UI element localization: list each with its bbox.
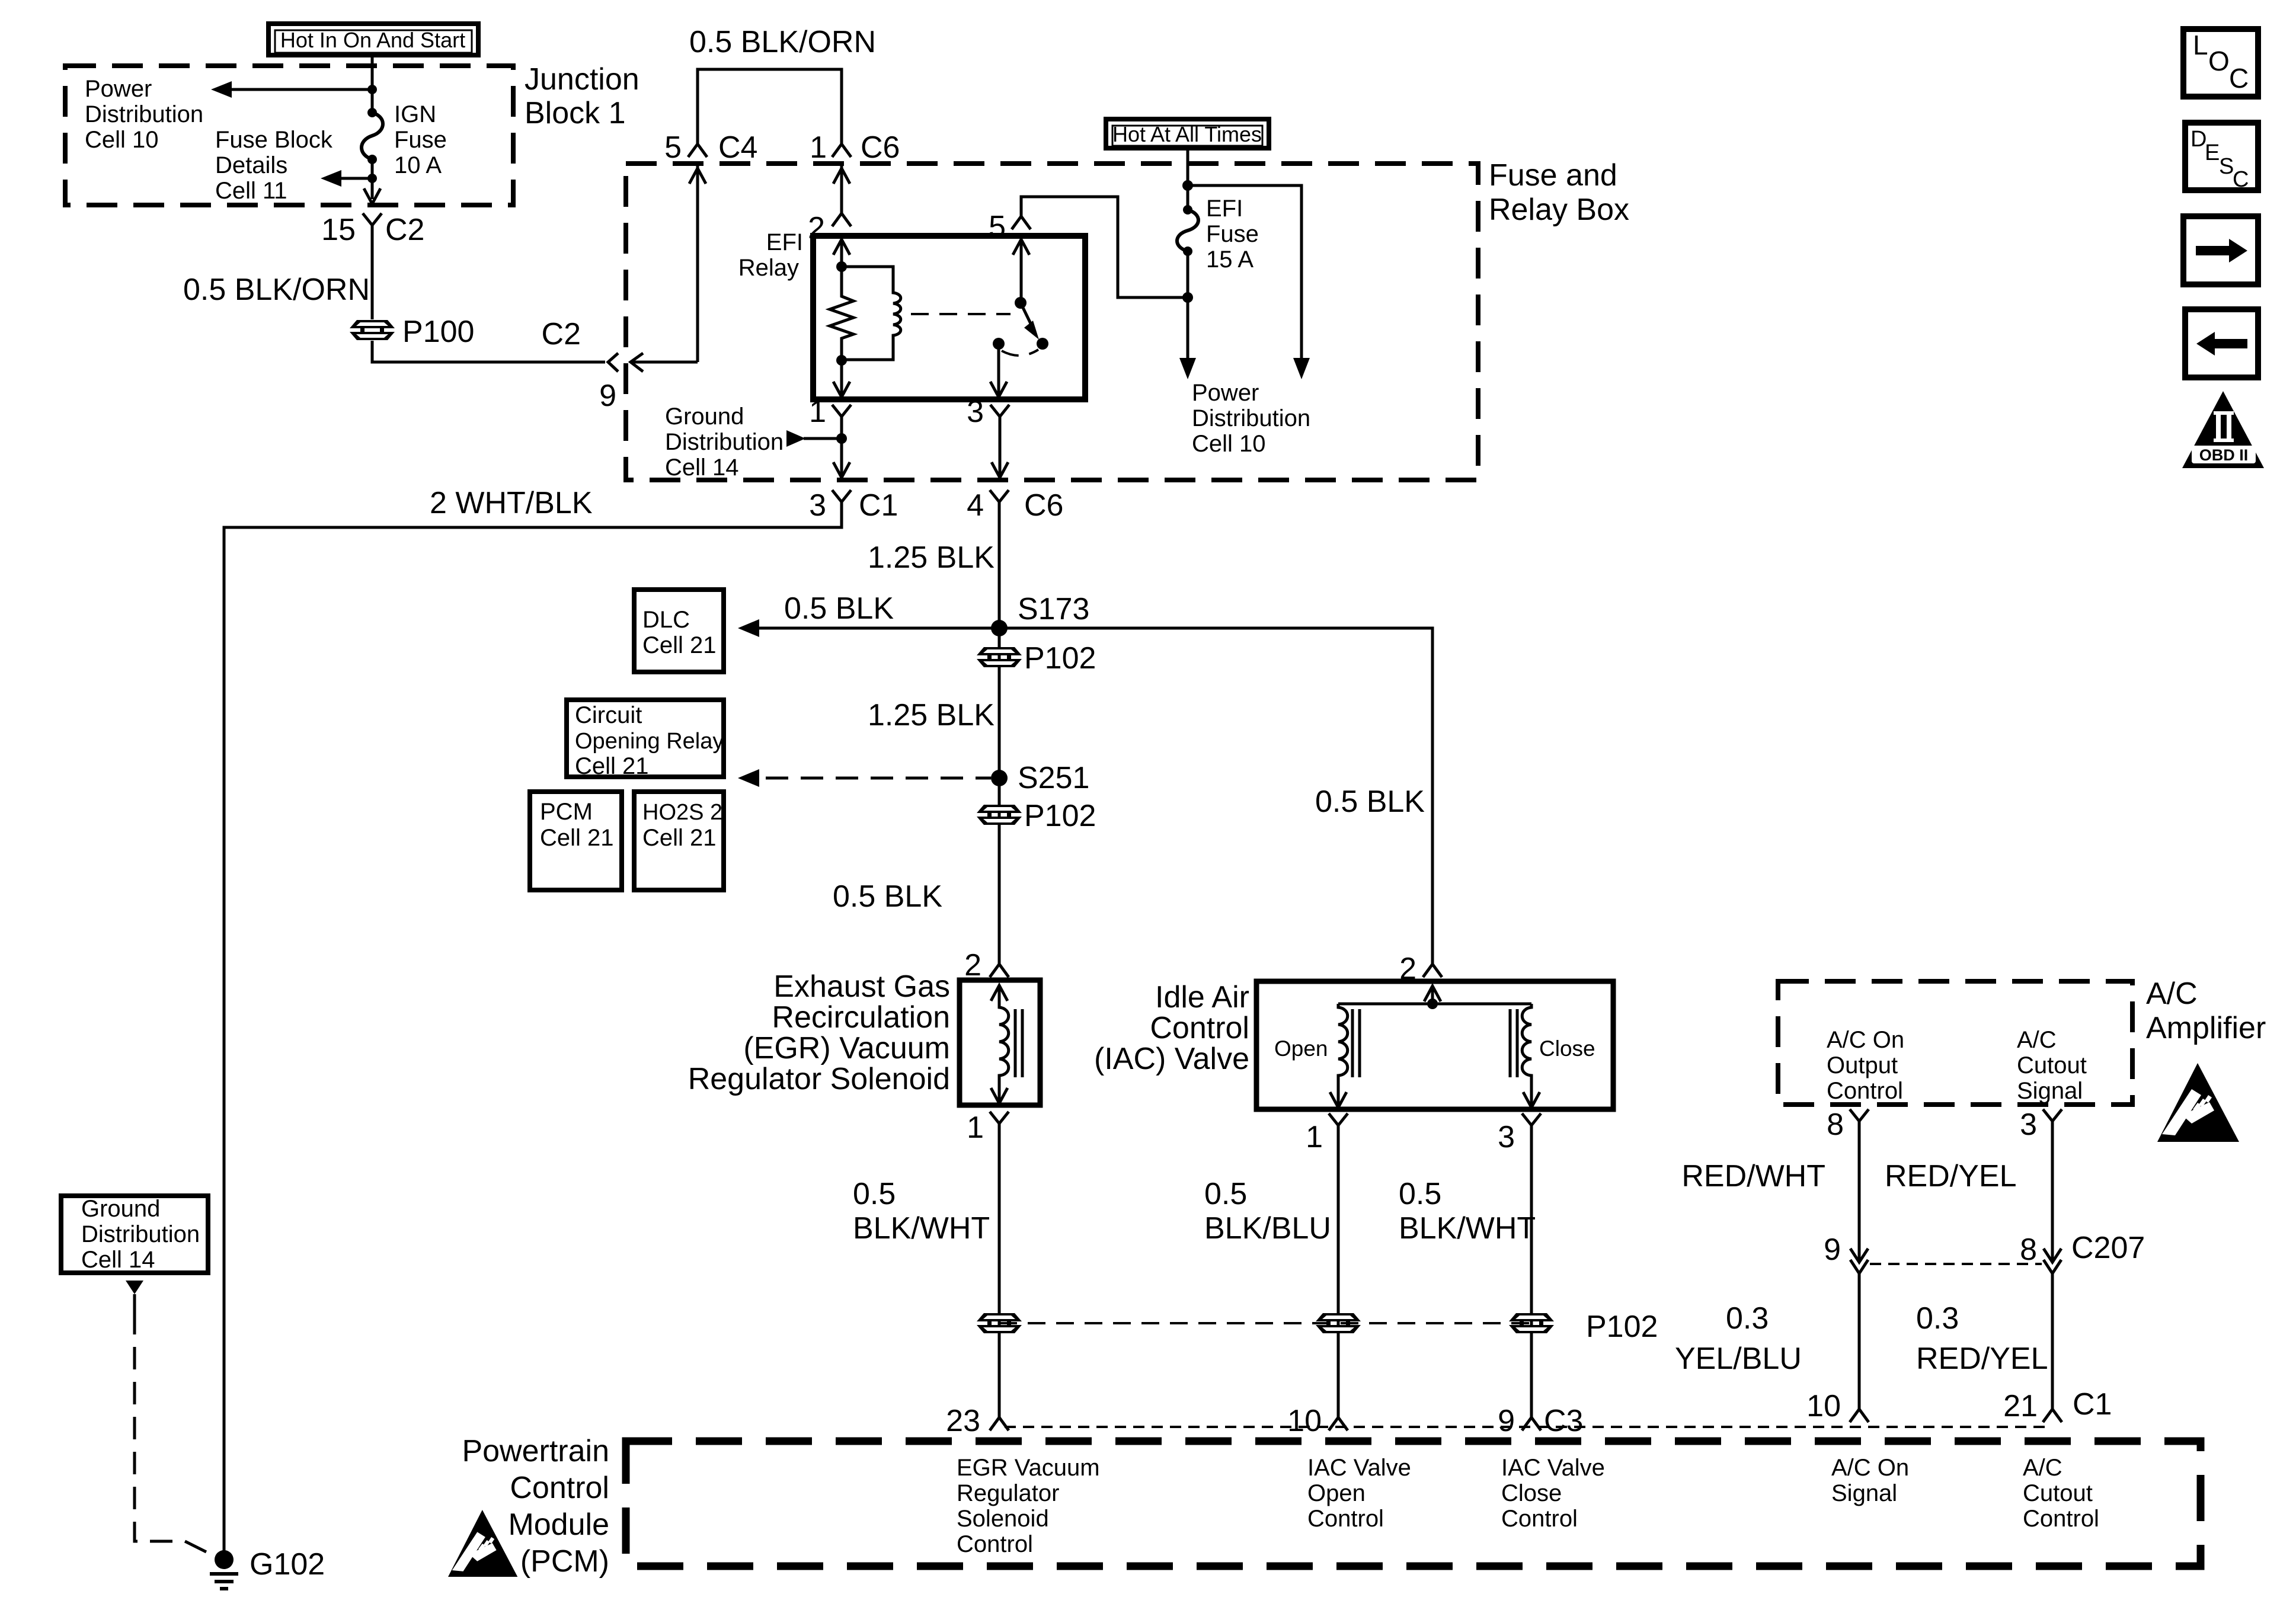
wire: right branch over and down <box>1188 185 1302 359</box>
svg-text:Recirculation: Recirculation <box>772 1000 950 1035</box>
connector: A/C pin 3 female <box>2043 1109 2062 1135</box>
wire: relay switch common to pin 5 <box>1020 239 1023 299</box>
svg-text:Fuse and: Fuse and <box>1489 158 1617 193</box>
fuse F-EFI: EFI Fuse 15 A symbol <box>1177 205 1198 256</box>
label: Exhaust Gas Recirculation (EGR) Vacuum Regulator Solenoid <box>688 969 950 1096</box>
svg-text:Control: Control <box>2023 1506 2099 1532</box>
connector: IAC pin 1 female <box>1329 1113 1348 1139</box>
svg-text:Distribution: Distribution <box>1192 405 1310 431</box>
wire: S173 down <box>998 628 1001 964</box>
wire label: 0.5 BLK/BLU <box>1204 1177 1331 1246</box>
svg-text:L: L <box>2193 30 2208 60</box>
svg-text:Solenoid: Solenoid <box>957 1506 1049 1532</box>
svg-text:Control: Control <box>1501 1506 1578 1532</box>
icon: LOC box <box>2183 29 2258 97</box>
wire: IAC pin3 down to PCM <box>1530 1139 1533 1417</box>
connector: PCM pin 21 male <box>2043 1409 2062 1422</box>
svg-text:Cell 14: Cell 14 <box>81 1247 155 1273</box>
svg-text:C: C <box>2229 63 2249 94</box>
svg-text:15 A: 15 A <box>1206 247 1253 273</box>
wire: 2 WHT/BLK from C1 left and down to G102 <box>224 501 842 1551</box>
label: Fuse and Relay Box <box>1489 158 1629 227</box>
connector P102: grommet IAC open wire <box>1316 1313 1361 1333</box>
arrow: up V below dashed edge at C4 <box>689 168 706 184</box>
svg-text:Cell 21: Cell 21 <box>575 753 649 779</box>
node: relay coil bottom junction <box>836 355 847 366</box>
wire: A/C pin 3 down to C207 <box>2051 1135 2054 1262</box>
svg-text:3: 3 <box>2020 1108 2037 1142</box>
wire: A/C pin 8 down to C207 <box>1858 1135 1861 1262</box>
svg-text:P102: P102 <box>1024 641 1096 676</box>
connector P102: grommet IAC close wire <box>1509 1313 1554 1333</box>
svg-text:10: 10 <box>1287 1404 1322 1438</box>
resistor: relay coil resistance zigzag <box>830 267 853 360</box>
svg-text:Cutout: Cutout <box>2017 1052 2087 1078</box>
label: A/C On Output Control <box>1827 1027 1904 1104</box>
svg-text:9: 9 <box>1498 1404 1515 1438</box>
arrow: up V inside EGR box <box>991 985 1008 1001</box>
label: A/C Cutout Control <box>2023 1455 2099 1532</box>
svg-text:P102: P102 <box>1586 1310 1658 1344</box>
svg-text:C1: C1 <box>859 488 898 523</box>
svg-text:C1: C1 <box>2073 1387 2112 1422</box>
svg-text:Cell 11: Cell 11 <box>215 178 287 204</box>
arrow: down V IAC open <box>1330 1092 1347 1108</box>
svg-text:(IAC) Valve: (IAC) Valve <box>1094 1042 1249 1076</box>
connector P102: grommet EGR wire <box>977 1313 1022 1333</box>
connector: A/C pin 8 female <box>1850 1109 1869 1135</box>
svg-text:Distribution: Distribution <box>665 429 784 455</box>
arrow: solid down to Power Distribution (left) <box>1179 358 1196 379</box>
arrow: down V inside EGR box <box>991 1088 1008 1103</box>
label: Power Distribution Cell 10 (in fuse box) <box>1192 380 1310 457</box>
label: Ground Distribution Cell 14 (in fuse box) <box>665 404 784 481</box>
switch: relay contact arm <box>993 297 1048 356</box>
wire: pin 5 up over to EFI fuse output <box>1021 197 1185 297</box>
svg-text:(PCM): (PCM) <box>520 1544 609 1579</box>
svg-text:HO2S 2: HO2S 2 <box>642 800 722 825</box>
arrow: up V inside relay at pin 2 <box>833 239 850 255</box>
connector: 4 C6 female below fuse box <box>990 490 1009 516</box>
arrow: solid down to Power Distribution (right) <box>1293 358 1310 379</box>
svg-text:15: 15 <box>321 213 356 247</box>
svg-text:S251: S251 <box>1018 761 1089 795</box>
svg-text:Relay: Relay <box>738 255 799 281</box>
fuse F-IGN: IGN Fuse 10 A symbol <box>362 108 383 164</box>
arrow: down V at fuse box bottom edge x1687 <box>992 462 1008 478</box>
dashed box: Fuse and Relay Box <box>626 164 1478 480</box>
node S173: splice <box>991 620 1008 636</box>
svg-text:PCM: PCM <box>540 799 593 825</box>
dashed arrow: S251 to Circuit Opening Relay <box>738 769 991 787</box>
connector: EGR pin 2 male <box>990 964 1009 977</box>
svg-text:Opening Relay: Opening Relay <box>575 729 724 754</box>
wire: EFI fuse down <box>1187 251 1189 359</box>
wire: up inside fuse box to C4 <box>696 164 699 362</box>
svg-text:10: 10 <box>1806 1389 1841 1423</box>
wire label: 0.5 BLK/WHT <box>853 1177 990 1246</box>
svg-text:Control: Control <box>957 1531 1033 1557</box>
svg-text:Regulator Solenoid: Regulator Solenoid <box>688 1062 950 1096</box>
box: Ground Distribution Cell 14 <box>61 1196 208 1273</box>
connector: EGR pin 1 female <box>990 1112 1009 1137</box>
svg-text:0.3: 0.3 <box>1916 1301 1959 1336</box>
arrow: from Ground Distribution to pin1 wire <box>786 430 842 447</box>
svg-text:IAC Valve: IAC Valve <box>1501 1455 1605 1481</box>
svg-text:Control: Control <box>1827 1078 1903 1104</box>
dashed link: PCM connector row <box>1005 1426 2048 1428</box>
wire: IAC pin2 to internal node <box>1431 986 1434 1004</box>
connector: IAC pin 3 female <box>1522 1113 1541 1139</box>
dashed wire: ground distribution to G102 <box>135 1312 206 1552</box>
label: EFI Fuse 15 A <box>1206 196 1259 273</box>
svg-text:0.5: 0.5 <box>853 1177 896 1211</box>
box: PCM Cell 21 <box>530 792 622 890</box>
label: Power Distribution Cell 10 <box>85 76 203 153</box>
node: junction with ground distribution arrow <box>836 433 847 444</box>
svg-text:0.5 BLK: 0.5 BLK <box>833 879 942 914</box>
connector: 5 C4 male above box <box>688 144 707 157</box>
connector: relay pin 3 female <box>990 405 1009 430</box>
icon: right arrow box <box>2183 216 2258 284</box>
svg-text:O: O <box>2208 46 2230 76</box>
connector: PCM pin 10 male <box>1850 1409 1869 1422</box>
node: junction to right branch <box>1182 180 1193 191</box>
svg-text:Junction: Junction <box>525 62 639 97</box>
dashed link: C207 connector row <box>1870 1263 2042 1265</box>
svg-text:C2: C2 <box>385 213 424 247</box>
svg-text:Control: Control <box>1150 1011 1249 1045</box>
svg-text:BLK/WHT: BLK/WHT <box>1399 1211 1536 1246</box>
esd symbol: PCM <box>448 1510 517 1577</box>
svg-text:Signal: Signal <box>2017 1078 2083 1104</box>
svg-text:A/C On: A/C On <box>1827 1027 1904 1053</box>
svg-text:5: 5 <box>989 210 1006 244</box>
svg-text:2 WHT/BLK: 2 WHT/BLK <box>430 486 593 520</box>
svg-text:9: 9 <box>1824 1233 1841 1267</box>
svg-text:3: 3 <box>967 395 984 429</box>
svg-text:C2: C2 <box>542 317 581 351</box>
wire: C6 down to EFI relay pin 2 <box>840 164 843 213</box>
node S251: splice <box>991 770 1008 786</box>
svg-text:Hot In On And Start: Hot In On And Start <box>280 28 465 52</box>
label: Powertrain Control Module (PCM) <box>462 1434 609 1579</box>
wire: relay left contact down to pin 3 <box>997 348 1000 396</box>
wire: C6 pin4 down to S173 <box>998 501 1001 628</box>
dashed link: relay coil to switch <box>911 313 1011 315</box>
arrow: down V at junction block edge <box>364 188 380 204</box>
wire: EGR pin1 down to PCM <box>998 1137 1001 1417</box>
svg-text:0.5 BLK/ORN: 0.5 BLK/ORN <box>689 25 876 59</box>
svg-text:0.5 BLK: 0.5 BLK <box>784 591 894 626</box>
svg-text:1: 1 <box>1306 1120 1323 1154</box>
svg-text:4: 4 <box>967 488 984 523</box>
box: EGR Vacuum Regulator Solenoid <box>960 980 1040 1105</box>
svg-text:Cell 21: Cell 21 <box>642 632 717 658</box>
connector: relay pin 2 male <box>832 213 851 226</box>
arrow: up V inside IAC box <box>1424 986 1441 1001</box>
box: HO2S 2 Cell 21 <box>634 792 724 890</box>
wire label: 0.3 YEL/BLU <box>1675 1301 1802 1376</box>
icon: OBD II triangle <box>2182 391 2264 468</box>
svg-text:C6: C6 <box>861 130 900 165</box>
connector: relay pin1 lower female stem wire <box>840 430 843 478</box>
connector: relay pin 5 male above box <box>1012 216 1031 229</box>
svg-text:IAC Valve: IAC Valve <box>1307 1455 1411 1481</box>
label: IGN Fuse 10 A <box>394 101 447 178</box>
arrow: down V at relay box bottom pin1 <box>833 382 850 397</box>
box: Circuit Opening Relay Cell 21 <box>567 700 724 779</box>
svg-text:0.5: 0.5 <box>1204 1177 1247 1211</box>
connector: 3 C1 female below fuse box <box>832 490 851 516</box>
svg-text:Exhaust Gas: Exhaust Gas <box>773 969 950 1004</box>
connector C207: arrow and chevron pin 8 <box>2044 1249 2061 1273</box>
svg-text:C3: C3 <box>1544 1404 1583 1438</box>
svg-text:0.5: 0.5 <box>1399 1177 1441 1211</box>
node: junction dot to Fuse Block Details arrow <box>367 174 377 183</box>
wire: relay pin3 stem down to box edge <box>999 430 1002 478</box>
label: IAC Valve Open Control <box>1307 1455 1411 1532</box>
label: EGR Vacuum Regulator Solenoid Control <box>957 1455 1100 1557</box>
svg-text:A/C: A/C <box>2017 1027 2057 1053</box>
svg-text:EGR Vacuum: EGR Vacuum <box>957 1455 1100 1481</box>
box: Hot At All Times label <box>1106 119 1269 148</box>
wire: arrow to Fuse Block Details Cell 11 <box>321 170 372 187</box>
box: Hot In On And Start label <box>268 24 478 55</box>
svg-text:Circuit: Circuit <box>575 702 642 728</box>
svg-text:8: 8 <box>1827 1108 1844 1142</box>
svg-text:Cell 21: Cell 21 <box>540 825 614 851</box>
connector: PCM pin 23 male <box>990 1417 1009 1430</box>
svg-text:C207: C207 <box>2071 1231 2145 1265</box>
svg-text:Amplifier: Amplifier <box>2146 1011 2266 1045</box>
svg-text:5: 5 <box>664 130 682 165</box>
svg-text:Power: Power <box>1192 380 1259 406</box>
svg-text:C: C <box>2233 167 2249 192</box>
inductor: relay coil winding <box>842 267 901 360</box>
svg-text:0.5 BLK: 0.5 BLK <box>1315 785 1425 819</box>
svg-text:Ground: Ground <box>665 404 744 430</box>
svg-text:Powertrain: Powertrain <box>462 1434 609 1468</box>
wire label: 0.5 BLK/WHT (close) <box>1399 1177 1536 1246</box>
node: relay coil top junction <box>836 261 847 272</box>
svg-text:P100: P100 <box>402 315 474 349</box>
svg-text:(EGR) Vacuum: (EGR) Vacuum <box>743 1031 950 1065</box>
solenoid coil: IAC Close winding <box>1510 1004 1531 1108</box>
wire: C2 down to P100 <box>371 239 374 319</box>
svg-text:1.25 BLK: 1.25 BLK <box>868 540 994 575</box>
connector: 1 C6 male <box>832 144 851 157</box>
connector P100: pass-through grommet <box>350 315 474 349</box>
svg-text:Cell 14: Cell 14 <box>665 454 739 481</box>
svg-text:Control: Control <box>510 1471 609 1505</box>
label: A/C Amplifier <box>2146 977 2266 1045</box>
svg-text:RED/WHT: RED/WHT <box>1681 1159 1825 1193</box>
svg-text:Signal: Signal <box>1831 1480 1897 1506</box>
svg-text:Hot At All Times: Hot At All Times <box>1112 122 1262 146</box>
wire: S173 branch right to IAC pin 2 <box>999 628 1432 964</box>
icon: DESC box <box>2185 123 2258 192</box>
connector: IAC pin 2 male <box>1423 964 1442 977</box>
wire: IAC internal bus <box>1338 1003 1531 1006</box>
dashed box: Powertrain Control Module (PCM) <box>626 1441 2201 1566</box>
wire: IGN fuse to bottom of junction block <box>371 159 374 199</box>
svg-text:RED/YEL: RED/YEL <box>1916 1342 2048 1376</box>
svg-text:EFI: EFI <box>766 229 803 255</box>
svg-text:Cutout: Cutout <box>2023 1480 2093 1506</box>
dashed box: Junction Block 1 <box>65 66 513 205</box>
label: A/C Cutout Signal <box>2017 1027 2087 1104</box>
wire label: 0.3 RED/YEL <box>1916 1301 2048 1376</box>
svg-text:2: 2 <box>964 948 981 982</box>
svg-text:0.5 BLK/ORN: 0.5 BLK/ORN <box>183 273 370 307</box>
svg-text:Cell 10: Cell 10 <box>1192 431 1266 457</box>
esd symbol: A/C Amplifier <box>2157 1063 2239 1142</box>
wire: relay pin2 down to coil node <box>840 239 843 267</box>
connector: 15 C2 female <box>363 213 382 239</box>
svg-text:Cell 21: Cell 21 <box>642 825 717 851</box>
svg-text:DLC: DLC <box>642 607 690 633</box>
svg-text:G102: G102 <box>250 1547 325 1582</box>
svg-text:10 A: 10 A <box>394 152 442 178</box>
svg-text:EFI: EFI <box>1206 196 1243 222</box>
dashed box: A/C Amplifier <box>1778 981 2132 1105</box>
wire: C207 pin9 down to PCM <box>1858 1273 1861 1409</box>
label: Idle Air Control (IAC) Valve <box>1094 980 1249 1076</box>
svg-text:C4: C4 <box>718 130 757 165</box>
svg-text:1: 1 <box>967 1110 984 1145</box>
box: Idle Air Control (IAC) Valve <box>1256 981 1613 1109</box>
svg-text:Fuse: Fuse <box>394 127 447 153</box>
svg-text:Distribution: Distribution <box>81 1221 200 1247</box>
svg-text:23: 23 <box>946 1404 980 1438</box>
svg-text:Cell 10: Cell 10 <box>85 127 159 153</box>
node: junction with relay pin5 feed <box>1182 292 1193 303</box>
solenoid coil: IAC Open winding <box>1338 1004 1360 1108</box>
svg-text:BLK/BLU: BLK/BLU <box>1204 1211 1331 1246</box>
ground G102 <box>210 1547 325 1589</box>
svg-text:1.25 BLK: 1.25 BLK <box>868 698 994 732</box>
svg-text:Power: Power <box>85 76 152 102</box>
svg-text:Close: Close <box>1501 1480 1562 1506</box>
svg-text:Module: Module <box>508 1507 609 1542</box>
connector C207: arrow and chevron pin 9 <box>1850 1249 1868 1273</box>
svg-text:Open: Open <box>1274 1036 1328 1061</box>
label: EFI Relay <box>738 229 803 281</box>
svg-text:Relay Box: Relay Box <box>1489 193 1629 227</box>
svg-text:Distribution: Distribution <box>85 101 203 127</box>
connector: PCM pin 9 male (IAC close) <box>1522 1417 1541 1430</box>
svg-text:S: S <box>2219 154 2234 179</box>
wire: from Hot In On And Start down to IGN fuse <box>371 54 374 111</box>
svg-text:8: 8 <box>2020 1233 2037 1267</box>
solenoid coil: EGR winding <box>999 985 1022 1103</box>
arrow: solid down from Ground Distribution box <box>126 1281 143 1294</box>
connector: relay pin 1 female <box>832 405 851 430</box>
connector P102: grommet below S251 <box>977 799 1096 833</box>
node: IAC internal junction <box>1427 998 1438 1009</box>
box: DLC Cell 21 <box>634 590 724 672</box>
svg-text:Fuse: Fuse <box>1206 221 1259 247</box>
svg-text:Open: Open <box>1307 1480 1366 1506</box>
svg-text:Ground: Ground <box>81 1196 160 1222</box>
wire: P100 down and right to C2 on fuse and relay box <box>372 341 605 362</box>
wire: 0.5 BLK/ORN loop from C4 to C6 <box>698 69 842 144</box>
svg-text:P102: P102 <box>1024 799 1096 833</box>
svg-text:A/C: A/C <box>2146 977 2198 1011</box>
box: EFI Relay <box>813 236 1085 399</box>
label: IAC Valve Close Control <box>1501 1455 1605 1532</box>
connector: PCM pin 10 male (IAC open) <box>1329 1417 1348 1430</box>
svg-text:Details: Details <box>215 152 287 178</box>
label: A/C On Signal <box>1831 1455 1909 1506</box>
wire: arrow to Power Distribution Cell 10 <box>211 81 372 98</box>
svg-text:3: 3 <box>1498 1120 1515 1154</box>
wire: C207 pin8 down to PCM <box>2051 1273 2054 1409</box>
svg-text:Output: Output <box>1827 1052 1898 1078</box>
wire: IAC pin1 down to PCM <box>1337 1139 1340 1417</box>
svg-text:Block 1: Block 1 <box>525 96 626 130</box>
svg-text:RED/YEL: RED/YEL <box>1885 1159 2017 1193</box>
svg-text:YEL/BLU: YEL/BLU <box>1675 1342 1802 1376</box>
connector P102: grommet below S173 <box>977 641 1096 676</box>
svg-text:A/C On: A/C On <box>1831 1455 1909 1481</box>
arrow: down V IAC close <box>1523 1092 1540 1108</box>
dashed link: P102 grommet row <box>999 1322 1531 1324</box>
svg-text:1: 1 <box>810 130 827 165</box>
node: junction dot to Power Distribution arrow <box>367 85 377 94</box>
svg-text:Control: Control <box>1307 1506 1384 1532</box>
svg-text:Regulator: Regulator <box>957 1480 1059 1506</box>
label: Fuse Block Details Cell 11 <box>215 127 333 204</box>
svg-text:IGN: IGN <box>394 101 436 127</box>
svg-text:Close: Close <box>1539 1036 1595 1061</box>
wire: Hot At All Times down into fuse box <box>1187 151 1189 209</box>
arrow: down V at relay box bottom pin3 <box>990 382 1007 397</box>
svg-text:A/C: A/C <box>2023 1455 2062 1481</box>
svg-text:Fuse Block: Fuse Block <box>215 127 333 153</box>
svg-text:S173: S173 <box>1018 592 1089 626</box>
arrow: up V inside relay at pin 5 <box>1013 239 1029 255</box>
label: Junction Block 1 <box>525 62 639 130</box>
wire: relay coil bottom to pin 1 <box>840 360 843 397</box>
connector: C2-9 chevron into fuse box <box>608 353 698 372</box>
svg-text:9: 9 <box>599 379 616 413</box>
arrow: down V at fuse box bottom edge x1420 <box>833 462 850 478</box>
icon: left arrow box <box>2185 309 2258 377</box>
wire: S173 branch left to DLC with arrow <box>738 619 999 637</box>
svg-text:OBD II: OBD II <box>2199 446 2249 464</box>
svg-text:3: 3 <box>809 488 826 523</box>
arrow: up V below dashed edge at C6 <box>833 168 850 184</box>
svg-text:BLK/WHT: BLK/WHT <box>853 1211 990 1246</box>
svg-text:Idle Air: Idle Air <box>1155 980 1249 1014</box>
svg-text:21: 21 <box>2003 1389 2038 1423</box>
svg-text:C6: C6 <box>1024 488 1063 523</box>
svg-text:0.3: 0.3 <box>1726 1301 1769 1336</box>
svg-text:E: E <box>2205 140 2220 165</box>
svg-text:1: 1 <box>809 395 826 429</box>
